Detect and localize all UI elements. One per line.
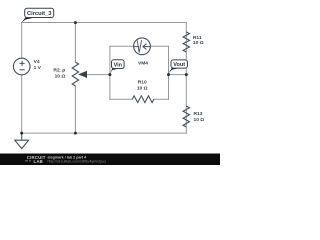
junction ground (20, 132, 23, 135)
label Circuit_3 box (25, 8, 54, 17)
label R10 value (137, 80, 148, 92)
label R13 value (194, 111, 205, 123)
wire wiper to Vin node (86, 74, 110, 76)
svg-text:10 Ω: 10 Ω (137, 86, 148, 92)
junction pot bottom (74, 132, 77, 135)
node Vin box (112, 60, 125, 69)
svg-text:R13: R13 (194, 111, 203, 117)
wire meter loop right vertical (168, 46, 170, 99)
watermark bar (0, 154, 220, 166)
svg-text:10 Ω: 10 Ω (194, 117, 205, 123)
label V4 value (34, 59, 42, 71)
VM4 arrow (134, 44, 150, 50)
svg-text:Circuit_3: Circuit_3 (27, 11, 51, 17)
node Vout pointer (168, 68, 180, 74)
svg-text:VM4: VM4 (138, 61, 148, 67)
label Circuit_3 pointer (21, 18, 35, 23)
resistor R10 zigzag (132, 96, 154, 103)
voltage source V4 circle (13, 58, 30, 75)
svg-text:Vin: Vin (114, 62, 123, 68)
svg-text:R10: R10 (138, 80, 147, 86)
resistor R13 zigzag (183, 106, 189, 127)
svg-text:V4: V4 (34, 59, 40, 65)
wire bottom horizontal (22, 132, 187, 134)
junction pot top (74, 21, 77, 24)
wire meter loop bottom (110, 98, 169, 100)
junction Vout (167, 73, 170, 76)
svg-text:10 Ω: 10 Ω (55, 73, 66, 79)
node Vin pointer (110, 69, 120, 75)
watermark logo LAB (25, 160, 31, 162)
wire meter loop top (110, 45, 169, 47)
potentiometer wiper arrow (78, 71, 87, 78)
svg-text:R2_p: R2_p (53, 67, 65, 73)
svg-text:http://circuitlab.com/c6f6u4ym: http://circuitlab.com/c6f6u4ymx2puz (48, 159, 107, 163)
svg-text:10 Ω: 10 Ω (193, 40, 204, 46)
V4 minus sign (20, 69, 25, 71)
wire potentiometer branch (74, 23, 76, 134)
resistor R11 zigzag (183, 32, 189, 52)
svg-text:Vout: Vout (173, 62, 185, 68)
junction Vin (108, 73, 111, 76)
wire meter loop left vertical (109, 46, 111, 99)
wire right vertical (185, 23, 187, 134)
wire left vertical (21, 23, 23, 134)
V4 plus sign (20, 61, 25, 66)
ground symbol (21, 133, 23, 140)
label R2_p value (53, 67, 65, 79)
node Vout box (171, 60, 187, 68)
voltmeter VM4 circle (134, 38, 151, 55)
svg-text:LAB: LAB (34, 159, 43, 164)
label R11 value (193, 35, 204, 46)
junction divider node (185, 73, 188, 76)
resistor R2_p zigzag (72, 62, 78, 86)
wire top horizontal (22, 22, 187, 24)
wire Vout to divider node (169, 74, 187, 76)
svg-text:1 V: 1 V (34, 65, 42, 71)
VM4 needle V glyph (137, 40, 141, 52)
